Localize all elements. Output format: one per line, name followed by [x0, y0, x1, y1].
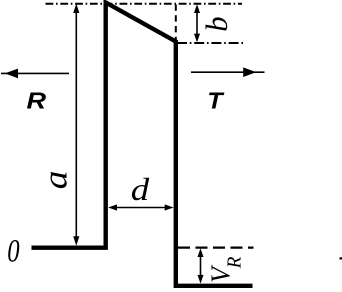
- svg-text:a: a: [36, 171, 74, 190]
- svg-text:b: b: [200, 17, 234, 32]
- svg-text:R: R: [224, 257, 246, 270]
- svg-text:T: T: [207, 88, 225, 114]
- svg-text:R: R: [26, 88, 46, 114]
- svg-text:d: d: [131, 172, 150, 207]
- svg-text:0: 0: [7, 233, 20, 269]
